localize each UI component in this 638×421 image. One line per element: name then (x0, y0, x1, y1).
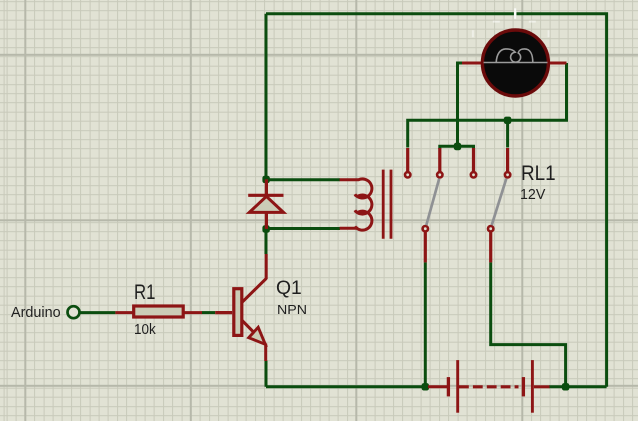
lamp (462, 30, 567, 96)
relay lever 1 (426, 179, 439, 226)
node junction coil bottom (262, 225, 269, 232)
label Q1 (276, 277, 302, 300)
wire coil bottom link (266, 227, 340, 230)
wire switch1 pole down to bottom rail (424, 262, 427, 386)
wire switch2 pole down and over to battery right (491, 262, 566, 386)
diode (relay flyback) (248, 179, 283, 229)
wire coil top link (266, 178, 340, 181)
label RL1 (521, 161, 556, 186)
label 10k (134, 322, 156, 338)
wire contact tee arms (440, 146, 474, 149)
node junction contact tee (454, 143, 461, 150)
relay RL1 coil (340, 179, 372, 230)
terminal Arduino input (68, 306, 80, 318)
relay core bars (383, 170, 391, 239)
origin marker white tick (472, 8, 550, 37)
wire contact C4 drop (506, 120, 509, 147)
wire left rail (top rail to coil top junction) (265, 14, 268, 180)
relay pole pin L2 (488, 226, 493, 262)
label R1 (134, 280, 155, 305)
battery (428, 360, 550, 413)
wire bottom right to battery (549, 385, 607, 388)
relay contact pin C3 (471, 148, 476, 178)
resistor R1 (115, 306, 202, 317)
wire bottom rail (266, 385, 425, 388)
relay contact pin C2 (437, 148, 442, 178)
wire diode bottom to collector (265, 229, 268, 254)
node junction battery right (562, 383, 569, 390)
node junction coil top (262, 176, 269, 183)
relay contact pin C4 (505, 148, 510, 178)
wire lamp right down and across (408, 63, 567, 148)
label Arduino (11, 304, 61, 321)
transistor Q1 (215, 254, 266, 361)
wire lamp left down to contact tee (458, 63, 463, 146)
node junction on lamp-right run (504, 117, 511, 124)
label NPN (277, 303, 307, 317)
wire top rail left segment (266, 12, 514, 15)
node junction battery left (422, 383, 429, 390)
relay contact pin C1 (405, 148, 410, 178)
wire input terminal to R1 (81, 311, 116, 314)
wire top rail right segment (516, 14, 606, 387)
wire R1 to Q1 base (202, 311, 216, 314)
relay lever 2 (492, 179, 507, 226)
wire emitter to bottom rail (265, 361, 268, 387)
relay pole pin L1 (423, 226, 428, 262)
label 12V (520, 187, 545, 203)
